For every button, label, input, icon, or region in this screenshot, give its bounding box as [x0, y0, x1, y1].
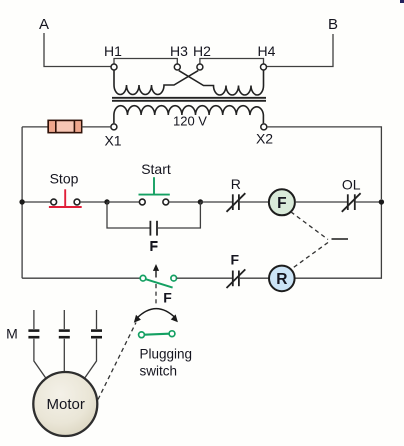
junction dot left of start	[104, 199, 109, 204]
plugging switch contact left terminal	[140, 275, 146, 281]
rotation arc double arrow	[134, 309, 178, 323]
pushbutton Start NO contact	[139, 177, 170, 205]
corner artifact speck	[400, 0, 404, 3]
wire plugging contact to F NC contact	[177, 277, 233, 279]
wire X2 to right rail	[267, 127, 382, 199]
arrow actuate direction	[153, 264, 159, 278]
svg-text:H1: H1	[104, 43, 122, 59]
svg-text:R: R	[276, 271, 287, 288]
transformer T1 secondary terminal X2	[256, 124, 273, 147]
wire junction to start	[107, 201, 139, 203]
contact M phase 2	[59, 310, 70, 373]
junction dot at left rail rung1	[19, 199, 24, 204]
svg-text:Start: Start	[141, 161, 171, 177]
transformer T1 primary terminal H2	[193, 43, 211, 70]
interlock bar	[332, 238, 349, 240]
svg-text:X1: X1	[104, 133, 121, 149]
svg-text:A: A	[39, 16, 49, 33]
transformer T1 primary terminal H3	[170, 43, 188, 70]
wire right rail lower segment	[295, 202, 382, 278]
fuse F1	[48, 120, 81, 132]
transformer T1 core	[112, 98, 266, 101]
svg-text:F: F	[231, 252, 240, 268]
wire start to junction	[169, 201, 201, 203]
transformer T1 primary terminal H1	[104, 43, 122, 70]
svg-text:Motor: Motor	[47, 396, 85, 413]
wire F coil to OL	[295, 201, 348, 203]
contact OL NC	[342, 193, 361, 212]
wire fuse to X1	[82, 126, 111, 128]
transformer T1 secondary terminal X1	[104, 124, 121, 149]
label Plugging switch	[140, 347, 193, 379]
svg-text:Stop: Stop	[50, 171, 79, 187]
wire F contact to R coil	[239, 277, 269, 279]
dashed link motor to plugging switch arc	[98, 323, 136, 400]
svg-text:H4: H4	[258, 43, 276, 59]
wire parallel branch right leg	[157, 202, 200, 228]
contact F holding NO contact	[150, 221, 157, 236]
wire OL to right rail	[355, 201, 382, 203]
transformer T1 primary left winding H1 side	[114, 70, 198, 95]
wire H1-H3 jumper	[114, 59, 177, 65]
wire rung1 left rail to stop	[22, 201, 51, 203]
svg-text:B: B	[328, 16, 338, 33]
dashed interlock vertex to R coil	[291, 243, 328, 270]
wire stop to junction	[80, 201, 107, 203]
transformer T1 primary right winding H4 side	[179, 70, 264, 95]
svg-text:120 V: 120 V	[173, 114, 207, 129]
plugging switch contact blade	[146, 279, 173, 287]
wire rung2 left rail to plugging contact	[22, 277, 140, 279]
svg-text:OL: OL	[342, 177, 361, 193]
plugging switch contact right terminal	[171, 275, 177, 281]
contact F NC rung2	[227, 269, 246, 288]
junction dot right rail rung1	[379, 199, 384, 204]
svg-text:F: F	[163, 290, 172, 306]
motor	[33, 372, 97, 436]
junction dot right of start	[198, 199, 203, 204]
contact M phase 3	[83, 310, 102, 381]
svg-text:H3: H3	[170, 43, 188, 59]
dashed link blade to arc	[155, 284, 157, 306]
coil R (reversing contactor)	[269, 266, 295, 292]
svg-text:X2: X2	[256, 131, 273, 147]
wire left rail from fuse line down to bottom rung	[21, 127, 23, 278]
contact R NC	[227, 193, 246, 212]
transformer T1 primary terminal H4	[258, 43, 276, 70]
wire B lead	[267, 34, 334, 67]
dashed interlock F coil to vertex	[291, 212, 328, 240]
contact M phase 1	[28, 310, 47, 381]
svg-text:F: F	[277, 195, 286, 212]
pushbutton Stop NC contact	[49, 189, 82, 207]
plugging switch symbol	[139, 331, 175, 338]
wire R contact to F coil	[239, 201, 269, 203]
svg-text:R: R	[231, 176, 241, 192]
wire A lead	[44, 33, 111, 67]
wire parallel branch left leg	[107, 202, 150, 228]
transformer T1 secondary winding	[114, 106, 264, 124]
svg-text:Plugging: Plugging	[140, 347, 193, 362]
wire fuse line left segment	[22, 126, 48, 128]
svg-text:F: F	[150, 238, 159, 254]
wire H2-H4 jumper	[200, 59, 264, 65]
wire junction to R contact	[200, 201, 232, 203]
svg-text:switch: switch	[140, 364, 178, 379]
svg-text:H2: H2	[193, 43, 211, 59]
coil F (forward contactor)	[269, 189, 295, 215]
svg-text:M: M	[6, 326, 18, 342]
